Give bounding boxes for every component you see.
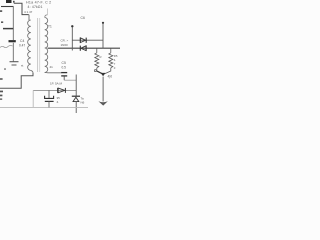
node: small circle at R4 bottom	[94, 70, 96, 72]
svg-text:41: 41	[50, 65, 54, 69]
diode CR2 (points left) on y=48	[80, 46, 86, 51]
wire: vertical x=76	[75, 75, 77, 96]
wire: center-tap rail y=48	[48, 47, 120, 49]
gray box: vertical edge	[32, 90, 34, 107]
resistor R5 (right)	[104, 48, 113, 74]
wire: step wire from primary bottom	[0, 73, 33, 88]
capacitor C5 plates	[61, 72, 67, 74]
svg-text:C5: C5	[62, 61, 66, 65]
gray bus: bottom rail	[0, 106, 88, 108]
diode CR3 on y=90	[58, 88, 66, 93]
label: left margin marks	[0, 10, 2, 12]
wire: left vertical to C4	[12, 7, 14, 41]
svg-text:4)0: 4)0	[108, 75, 113, 79]
wire: C5 bottom lead	[63, 76, 65, 80]
wire: below CR4	[75, 102, 77, 113]
svg-text:C4: C4	[20, 39, 24, 43]
svg-text:4: 47kΩ1: 4: 47kΩ1	[28, 5, 43, 9]
wire: jog to x=76	[64, 79, 76, 81]
svg-text:R: R	[100, 55, 102, 59]
junction arrow at resistor bottoms	[101, 73, 106, 76]
node: terminal dot x=72	[71, 25, 73, 27]
diode CR4 vertical	[72, 96, 80, 101]
wire: squiggle lead-in	[0, 46, 13, 48]
diode CR1 (points right) on y=40	[80, 38, 86, 43]
svg-text:N6: N6	[81, 101, 85, 105]
capacitor C4 plate	[9, 40, 16, 42]
resistor R4 (left)	[95, 48, 99, 70]
wire: down to ground arrow	[102, 77, 104, 102]
node: input label blob top-left	[6, 0, 12, 3]
svg-text:0.47: 0.47	[19, 44, 25, 48]
wire: faint lead above secondary	[47, 9, 49, 15]
svg-text:0.5: 0.5	[62, 66, 67, 70]
svg-text:4 1.47: 4 1.47	[24, 10, 33, 14]
wire: node rail y=90	[33, 89, 76, 91]
svg-text:T1: T1	[48, 25, 52, 29]
wire: vertical at x=103	[102, 24, 104, 49]
transformer T1 core	[37, 18, 39, 72]
ground G1	[10, 62, 19, 65]
wire: secondary top curl	[45, 15, 48, 18]
wire: second left stub y=28.5	[3, 28, 13, 30]
svg-text:4.: 4.	[57, 100, 60, 104]
svg-text:C6: C6	[81, 16, 85, 20]
inductor: T1 secondary winding (right, bumps right)	[45, 18, 48, 73]
wire: R4 bottom to junction	[97, 71, 103, 74]
wire: primary top lead	[28, 15, 30, 20]
capacitor C7 electrolytic	[48, 90, 50, 98]
svg-text:st: st	[21, 64, 24, 68]
wire: upper branch y=40	[72, 39, 103, 41]
wire: top jog to transformer	[14, 3, 29, 14]
wire: secondary bottom lead to C5	[45, 71, 62, 73]
wire: primary bottom lead	[31, 70, 33, 73]
inductor: T1 primary winding (left, bumps left)	[28, 20, 31, 70]
svg-text:1P. 5A.M: 1P. 5A.M	[50, 82, 62, 86]
svg-text:1N60: 1N60	[61, 43, 69, 47]
wire: below C4	[12, 43, 14, 62]
svg-text:H1a 47-F. C 2: H1a 47-F. C 2	[26, 1, 51, 5]
node: terminal dot x=103	[102, 22, 104, 24]
wire: vertical at x=72	[71, 27, 73, 51]
ground arrow (down arrowhead)	[98, 101, 107, 105]
wire: left input stub y=6.5	[1, 6, 14, 8]
